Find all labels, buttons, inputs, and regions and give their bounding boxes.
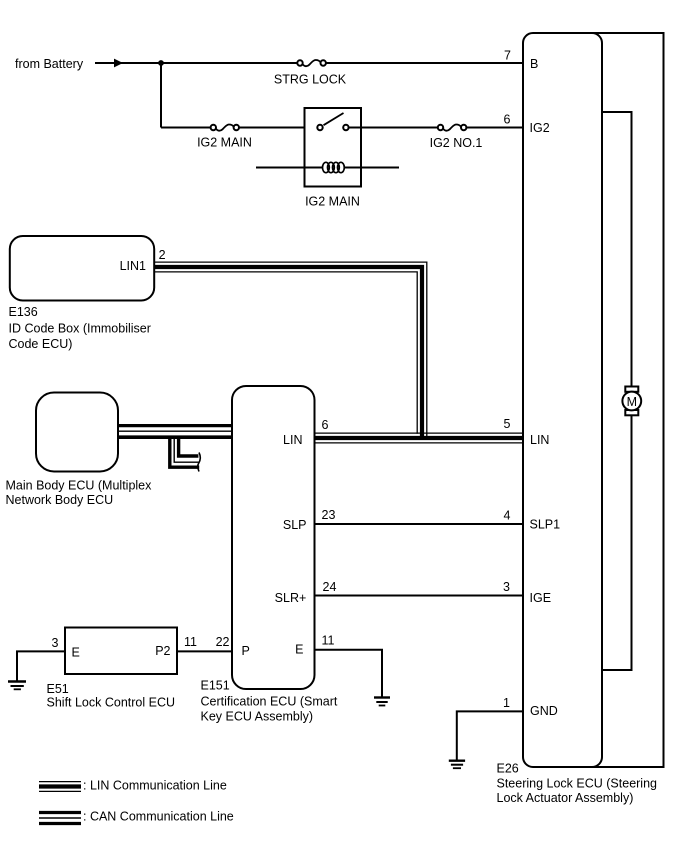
- wire relay coil right: [344, 167, 399, 169]
- svg-text:24: 24: [323, 580, 337, 594]
- svg-text:Network Body ECU: Network Body ECU: [6, 493, 114, 507]
- svg-text:M: M: [627, 395, 637, 409]
- wire IG2 NO.1 fuse to pin IG2 of E26: [466, 127, 523, 129]
- fuse STRG LOCK: [297, 60, 326, 66]
- svg-text:LIN1: LIN1: [120, 259, 146, 273]
- wire main LIN bus (Certification ECU to Steering Lock ECU): [316, 433, 524, 443]
- svg-text:7: 7: [504, 49, 511, 63]
- svg-text:3: 3: [52, 636, 59, 650]
- wire IG2 MAIN fuse to relay: [239, 127, 317, 129]
- relay coil: [323, 162, 345, 172]
- svg-text:SLP: SLP: [283, 518, 307, 532]
- wire E51 pin E to ground: [17, 651, 65, 680]
- legend CAN line sample: [39, 813, 81, 824]
- wire relay coil left: [256, 167, 323, 169]
- wire battery feed to STRG LOCK fuse: [95, 62, 297, 64]
- svg-text:IG2 MAIN: IG2 MAIN: [197, 136, 252, 150]
- fuse IG2 NO.1: [438, 124, 467, 130]
- ECU U-E26 Steering Lock: [523, 33, 602, 767]
- svg-text:6: 6: [504, 113, 511, 127]
- svg-text:2: 2: [159, 248, 166, 262]
- svg-text:11: 11: [322, 634, 335, 648]
- relay switch contacts: [317, 113, 348, 130]
- svg-text:Key ECU Assembly): Key ECU Assembly): [201, 709, 314, 723]
- svg-text:LIN: LIN: [283, 433, 302, 447]
- svg-text:Certification ECU (Smart: Certification ECU (Smart: [201, 694, 338, 708]
- ground (E51 E): [8, 682, 26, 690]
- svg-text:Steering Lock ECU (Steering: Steering Lock ECU (Steering: [497, 777, 658, 791]
- legend LIN line sample: [39, 782, 81, 792]
- svg-text:LIN: LIN: [530, 433, 549, 447]
- wire relay to IG2 NO.1 fuse: [349, 127, 438, 129]
- fuse IG2 MAIN: [211, 124, 239, 130]
- svg-text:SLP1: SLP1: [530, 518, 561, 532]
- svg-text:Lock Actuator Assembly): Lock Actuator Assembly): [497, 791, 634, 805]
- svg-text:5: 5: [504, 417, 511, 431]
- svg-text:IGE: IGE: [530, 591, 552, 605]
- motor M1: [622, 387, 641, 416]
- ECU U-E151 Certification: [232, 386, 315, 689]
- wire junction down to IG2 MAIN branch: [160, 63, 162, 128]
- ECU U-E136 ID Code Box: [10, 236, 154, 301]
- svg-text:Shift Lock Control ECU: Shift Lock Control ECU: [47, 695, 176, 709]
- svg-text:STRG LOCK: STRG LOCK: [274, 73, 347, 87]
- svg-text:GND: GND: [530, 704, 558, 718]
- svg-text:E: E: [295, 643, 303, 657]
- svg-text:3: 3: [503, 580, 510, 594]
- wire SLP to SLP1: [315, 523, 524, 525]
- svg-text:from Battery: from Battery: [15, 57, 84, 71]
- svg-text:11: 11: [184, 635, 197, 649]
- svg-text:Main Body ECU (Multiplex: Main Body ECU (Multiplex: [6, 479, 153, 493]
- wire motor loop top: [602, 112, 632, 387]
- svg-text:E51: E51: [47, 682, 69, 696]
- ECU U-E51 Shift Lock Control: [65, 628, 177, 675]
- Steering Lock Actuator Assembly outer box: [580, 33, 664, 767]
- junction battery node: [158, 60, 164, 66]
- svg-text:E: E: [72, 646, 80, 660]
- svg-text:6: 6: [322, 418, 329, 432]
- svg-text:IG2 MAIN: IG2 MAIN: [305, 195, 360, 209]
- relay IG2 MAIN box: [305, 108, 362, 187]
- wire to IG2 MAIN fuse: [161, 127, 211, 129]
- svg-text:Code ECU): Code ECU): [9, 337, 73, 351]
- wire CAN bus Main Body ECU to Certification ECU: [118, 426, 233, 438]
- wire motor loop bottom: [602, 415, 632, 670]
- wire SLR+ to IGE: [315, 595, 524, 597]
- svg-text:E26: E26: [497, 762, 519, 776]
- ground (E151 E): [374, 698, 390, 706]
- svg-text:4: 4: [504, 509, 511, 523]
- svg-text:23: 23: [322, 508, 336, 522]
- svg-text:1: 1: [503, 696, 510, 710]
- svg-text:E136: E136: [9, 305, 38, 319]
- svg-text:IG2 NO.1: IG2 NO.1: [430, 136, 483, 150]
- wire E26 pin GND to ground: [457, 711, 523, 759]
- svg-text:IG2: IG2: [530, 121, 550, 135]
- ECU Main Body: [36, 393, 118, 472]
- svg-text:: CAN Communication Line: : CAN Communication Line: [83, 809, 234, 823]
- wire arrowhead battery feed: [114, 59, 123, 68]
- wire LIN bus from E136 pin 2 down to main LIN line: [154, 262, 427, 440]
- wire E151 pin E to ground: [315, 650, 383, 697]
- wire STRG LOCK fuse to pin B of E26: [326, 62, 523, 64]
- svg-text:ID Code Box (Immobiliser: ID Code Box (Immobiliser: [9, 322, 151, 336]
- svg-text:P: P: [242, 644, 250, 658]
- svg-text:22: 22: [216, 635, 230, 649]
- wire CAN bus branch stub (continues off-diagram): [170, 437, 200, 472]
- svg-text:SLR+: SLR+: [275, 591, 307, 605]
- ground (E26 GND): [449, 761, 465, 769]
- wire E51 P2 to E151 P: [177, 650, 233, 652]
- svg-text:: LIN Communication Line: : LIN Communication Line: [83, 778, 227, 792]
- svg-text:B: B: [530, 57, 538, 71]
- svg-text:E151: E151: [201, 678, 230, 692]
- svg-text:P2: P2: [155, 644, 170, 658]
